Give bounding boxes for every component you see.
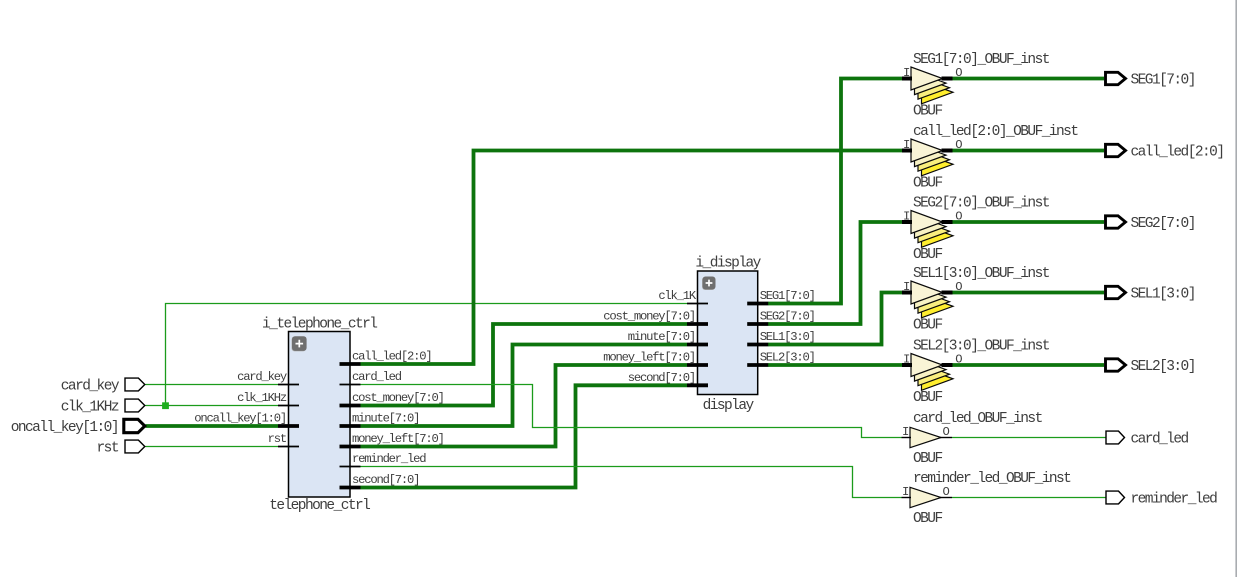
- svg-text:I: I: [903, 138, 910, 152]
- svg-text:i_telephone_ctrl: i_telephone_ctrl: [262, 316, 377, 332]
- pin card_led (output) of i_telephone_ctrl: [340, 370, 402, 385]
- svg-text:SEG1[7:0]: SEG1[7:0]: [760, 289, 815, 303]
- pin second[7:0] (input) of i_display: [628, 371, 708, 386]
- pin clk_1KHz (input) of i_telephone_ctrl: [237, 391, 299, 406]
- pin minute[7:0] (input) of i_display: [628, 330, 708, 345]
- svg-text:minute[7:0]: minute[7:0]: [352, 412, 419, 426]
- wire net card_led (telephone_ctrl to OBUF): [361, 385, 902, 438]
- svg-text:SEL2[3:0]: SEL2[3:0]: [760, 351, 815, 365]
- wire net reminder_led (telephone_ctrl to OBUF): [361, 467, 902, 498]
- input port card_key: [61, 378, 145, 394]
- svg-text:SEL1[3:0]: SEL1[3:0]: [760, 330, 815, 344]
- wire net second[7:0] (telephone_ctrl to i_display): [361, 385, 688, 487]
- wire net SEL1[3:0] (OBUF to output port): [953, 291, 1105, 295]
- buffer SEG2[7:0]_OBUF_inst (OBUF): [902, 196, 1050, 264]
- pin oncall_key[1:0] (input) of i_telephone_ctrl: [194, 412, 299, 427]
- wire net oncall_key[1:0] (bus, input port to telephone_ctrl): [146, 424, 279, 428]
- module instance i_display (display): [695, 256, 761, 415]
- wire net SEG2[7:0] (OBUF to output port): [953, 220, 1105, 224]
- svg-text:O: O: [955, 353, 962, 367]
- svg-text:SEL2[3:0]_OBUF_inst: SEL2[3:0]_OBUF_inst: [913, 339, 1050, 355]
- svg-text:SEG2[7:0]: SEG2[7:0]: [760, 310, 815, 324]
- buffer SEL1[3:0]_OBUF_inst (OBUF): [902, 266, 1050, 334]
- pin card_key (input) of i_telephone_ctrl: [237, 370, 299, 385]
- output port SEL1[3:0]: [1106, 286, 1195, 302]
- output port SEG2[7:0]: [1106, 216, 1195, 232]
- pin clk_1K (input) of i_display: [658, 289, 708, 304]
- buffer SEG1[7:0]_OBUF_inst (OBUF): [902, 52, 1050, 120]
- pin SEG1[7:0] (output) of i_display: [747, 289, 815, 304]
- svg-text:reminder_led_OBUF_inst: reminder_led_OBUF_inst: [913, 471, 1071, 487]
- svg-text:card_led: card_led: [352, 370, 402, 384]
- wire net clk_1KHz trunk (input port to telephone_ctrl): [146, 405, 279, 407]
- svg-text:OBUF: OBUF: [913, 451, 942, 467]
- input port clk_1KHz: [61, 399, 145, 415]
- svg-text:second[7:0]: second[7:0]: [628, 371, 695, 385]
- svg-text:OBUF: OBUF: [913, 104, 942, 120]
- svg-text:O: O: [955, 280, 962, 294]
- panel border (right edge): [1235, 0, 1237, 577]
- svg-text:cost_money[7:0]: cost_money[7:0]: [352, 391, 444, 405]
- buffer call_led[2:0]_OBUF_inst (OBUF): [902, 124, 1078, 192]
- svg-text:I: I: [903, 353, 910, 367]
- svg-text:O: O: [942, 485, 949, 499]
- svg-text:O: O: [942, 425, 949, 439]
- svg-text:O: O: [955, 66, 962, 80]
- svg-text:i_display: i_display: [695, 256, 761, 272]
- svg-text:I: I: [903, 280, 910, 294]
- wire net SEG1[7:0] (OBUF to output port): [953, 77, 1105, 81]
- pin SEL1[3:0] (output) of i_display: [747, 330, 815, 345]
- svg-text:SEL1[3:0]_OBUF_inst: SEL1[3:0]_OBUF_inst: [913, 266, 1050, 282]
- svg-text:clk_1KHz: clk_1KHz: [61, 400, 119, 416]
- svg-text:SEG1[7:0]_OBUF_inst: SEG1[7:0]_OBUF_inst: [913, 52, 1050, 68]
- svg-text:card_key: card_key: [61, 379, 120, 395]
- wire net SEL1_OBUF[3:0] (i_display to OBUF): [768, 293, 902, 345]
- pin SEL2[3:0] (output) of i_display: [747, 351, 815, 366]
- svg-text:oncall_key[1:0]: oncall_key[1:0]: [194, 412, 286, 426]
- svg-text:call_led[2:0]: call_led[2:0]: [352, 350, 431, 364]
- svg-text:I: I: [903, 66, 910, 80]
- svg-text:display: display: [703, 398, 755, 414]
- svg-text:reminder_led: reminder_led: [1131, 492, 1218, 508]
- svg-text:card_key: card_key: [237, 370, 287, 384]
- pin cost_money[7:0] (input) of i_display: [603, 310, 708, 325]
- output port card_led: [1106, 431, 1189, 447]
- wire net reminder_led (OBUF to output port): [952, 497, 1106, 499]
- svg-text:O: O: [955, 138, 962, 152]
- pin rst (input) of i_telephone_ctrl: [268, 432, 299, 447]
- wire net rst (input port to telephone_ctrl): [146, 446, 279, 448]
- svg-text:call_led[2:0]_OBUF_inst: call_led[2:0]_OBUF_inst: [913, 124, 1078, 140]
- junction clk_1KHz branch point: [162, 402, 169, 409]
- svg-text:OBUF: OBUF: [913, 511, 942, 527]
- svg-text:O: O: [955, 210, 962, 224]
- wire net call_led[2:0] (OBUF to output port): [953, 149, 1105, 153]
- output port reminder_led: [1106, 491, 1217, 507]
- svg-text:card_led: card_led: [1131, 432, 1189, 448]
- svg-text:I: I: [902, 425, 909, 439]
- input port rst: [97, 440, 145, 456]
- svg-text:SEG2[7:0]_OBUF_inst: SEG2[7:0]_OBUF_inst: [913, 196, 1050, 212]
- svg-text:money_left[7:0]: money_left[7:0]: [603, 351, 695, 365]
- svg-text:SEG1[7:0]: SEG1[7:0]: [1131, 73, 1195, 89]
- pin minute[7:0] (output) of i_telephone_ctrl: [340, 412, 420, 427]
- output port call_led[2:0]: [1106, 144, 1224, 160]
- svg-text:rst: rst: [97, 441, 119, 457]
- svg-text:OBUF: OBUF: [913, 390, 942, 406]
- svg-text:OBUF: OBUF: [913, 318, 942, 334]
- svg-text:OBUF: OBUF: [913, 176, 942, 192]
- pin SEG2[7:0] (output) of i_display: [747, 310, 815, 325]
- svg-text:card_led_OBUF_inst: card_led_OBUF_inst: [913, 411, 1043, 427]
- buffer card_led_OBUF_inst (OBUF): [902, 411, 1043, 467]
- output port SEL2[3:0]: [1106, 359, 1195, 375]
- wire net money_left[7:0] (telephone_ctrl to i_display): [361, 365, 688, 447]
- svg-text:clk_1K: clk_1K: [658, 289, 697, 303]
- svg-text:minute[7:0]: minute[7:0]: [628, 330, 695, 344]
- wire net SEL2[3:0] (OBUF to output port): [953, 363, 1105, 367]
- svg-text:SEL1[3:0]: SEL1[3:0]: [1131, 287, 1195, 303]
- wire net card_key (input port to telephone_ctrl): [146, 384, 279, 386]
- pin money_left[7:0] (output) of i_telephone_ctrl: [340, 432, 444, 447]
- wire net clk_1KHz branch to i_display clk_1K: [166, 304, 688, 406]
- svg-text:telephone_ctrl: telephone_ctrl: [269, 498, 370, 514]
- pin call_led[2:0] (output) of i_telephone_ctrl: [340, 350, 432, 365]
- module instance i_telephone_ctrl (telephone_ctrl): [262, 316, 377, 514]
- input port oncall_key[1:0]: [11, 419, 145, 436]
- svg-text:SEL2[3:0]: SEL2[3:0]: [1131, 359, 1195, 375]
- output port SEG1[7:0]: [1106, 72, 1195, 88]
- pin cost_money[7:0] (output) of i_telephone_ctrl: [340, 391, 444, 406]
- wire net minute[7:0] (telephone_ctrl to i_display): [361, 345, 688, 427]
- svg-text:clk_1KHz: clk_1KHz: [237, 391, 287, 405]
- svg-text:I: I: [903, 210, 910, 224]
- svg-text:I: I: [902, 485, 909, 499]
- svg-text:money_left[7:0]: money_left[7:0]: [352, 432, 444, 446]
- pin reminder_led (output) of i_telephone_ctrl: [340, 452, 427, 467]
- svg-text:OBUF: OBUF: [913, 247, 942, 263]
- wire net SEG2_OBUF[7:0] (i_display to OBUF): [768, 222, 902, 324]
- svg-text:reminder_led: reminder_led: [352, 452, 426, 466]
- wire net SEL2_OBUF[3:0] (i_display to OBUF): [768, 363, 902, 367]
- wire net call_led[2:0] (telephone_ctrl to OBUF): [361, 151, 903, 365]
- pin money_left[7:0] (input) of i_display: [603, 351, 708, 366]
- svg-text:oncall_key[1:0]: oncall_key[1:0]: [11, 420, 118, 436]
- wire net card_led (OBUF to output port): [952, 437, 1106, 439]
- svg-text:call_led[2:0]: call_led[2:0]: [1131, 145, 1224, 161]
- svg-text:SEG2[7:0]: SEG2[7:0]: [1131, 216, 1195, 232]
- svg-text:second[7:0]: second[7:0]: [352, 473, 419, 487]
- pin second[7:0] (output) of i_telephone_ctrl: [340, 473, 420, 488]
- svg-text:cost_money[7:0]: cost_money[7:0]: [603, 310, 695, 324]
- svg-text:rst: rst: [268, 432, 287, 446]
- buffer SEL2[3:0]_OBUF_inst (OBUF): [902, 339, 1050, 407]
- buffer reminder_led_OBUF_inst (OBUF): [902, 471, 1072, 527]
- wire net cost_money[7:0] (telephone_ctrl to i_display): [361, 324, 688, 406]
- wire net SEG1_OBUF[7:0] (i_display to OBUF): [768, 79, 902, 304]
